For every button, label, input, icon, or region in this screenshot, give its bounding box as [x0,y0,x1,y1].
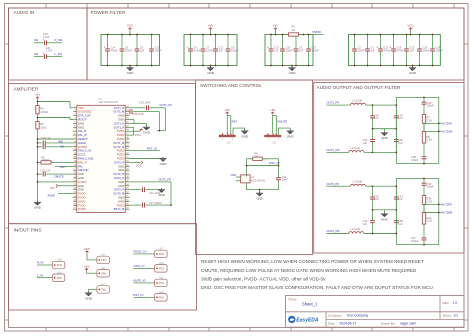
svg-text:PAD_P: PAD_P [78,160,87,164]
section box AMPLIFIER [9,84,196,224]
capacitor C24 10uF (bootstrap 3) [130,187,161,195]
node INL [60,145,65,149]
capacitor C17 100nF [306,34,319,67]
wire OUT1_P net drop [150,108,166,131]
ground (U4) [241,129,249,138]
note text line 1 [201,259,424,264]
svg-text:PVDD: PVDD [78,203,86,207]
capacitor C37 100pF (snubber bottom) [411,224,426,245]
svg-text:R_IN1: R_IN1 [55,38,63,42]
ground (output filter ch1) [381,131,389,140]
section box AUDIO OUTPUT AND OUTPUT FILTER [314,83,464,254]
svg-text:OTW_IO: OTW_IO [133,264,145,268]
capacitor C34 1uF (P col2) [394,105,403,129]
capacitor C0P 100pF (snubber bottom) [411,143,426,164]
svg-text:INL: INL [60,145,65,149]
svg-text:1uF: 1uF [299,48,304,52]
svg-text:VDD: VDD [78,106,84,110]
svg-text:ECS-120-AL: ECS-120-AL [251,178,266,182]
node RST [227,116,237,134]
svg-text:EasyEDA: EasyEDA [296,318,319,324]
svg-text:OUT1_P0: OUT1_P0 [159,103,172,107]
svg-text:VCC: VCC [136,164,142,168]
node R_IN1 [55,38,63,42]
svg-text:+: + [103,45,105,49]
svg-text:+5V: +5V [224,108,229,112]
svg-text:+5V: +5V [270,108,275,112]
svg-text:GND: GND [287,134,295,138]
svg-text:2024-06-17: 2024-06-17 [340,321,357,325]
svg-text:C27 100nF: C27 100nF [149,201,162,205]
svg-text:U4: U4 [227,140,231,144]
svg-text:7kΩ: 7kΩ [255,154,260,158]
svg-text:L_IN1: L_IN1 [55,52,63,56]
svg-text:OUT2_P: OUT2_P [114,188,125,192]
svg-text:1uF: 1uF [218,48,223,52]
power symbol +5V (pin feed) [84,264,97,273]
ground (amplifier left rail) [34,201,42,210]
svg-text:GND: GND [118,118,124,122]
note text line 4 [201,285,433,290]
svg-text:OUT2_P0: OUT2_P0 [327,182,340,186]
svg-text:1uF: 1uF [409,48,414,52]
capacitor C30 100pF (snubber top) [422,96,435,114]
svg-text:100pF: 100pF [427,104,435,108]
ground (oscillator) [256,192,264,201]
svg-text:FAULT_IO: FAULT_IO [133,250,147,254]
node PVDD [313,30,324,35]
svg-text:RST_IO: RST_IO [133,293,144,297]
svg-text:REV:: REV: [443,301,450,305]
svg-text:1.0: 1.0 [453,301,458,305]
wire filter gnd tie ch2 [372,209,398,212]
svg-text:1uF: 1uF [398,116,403,120]
wire GND bus rows 4-5 [130,120,147,126]
svg-text:OUT2_M0: OUT2_M0 [327,229,340,233]
capacitor C25 10uF (bootstrap 2) [130,109,161,131]
power symbol +5V (amplifier rail) [35,93,40,100]
capacitor C41 1uF (P col2) [394,186,403,210]
svg-text:GND: GND [409,71,417,75]
svg-text:100nF: 100nF [422,48,430,52]
svg-text:OUT2_P: OUT2_P [114,176,125,180]
capacitor C18 470uF [389,34,404,67]
wire power-filter rail (VCC) [349,35,441,66]
svg-text:1uF: 1uF [363,222,368,226]
svg-text:GVDD/SD2: GVDD/SD2 [78,110,92,114]
ground (below +5V group) [288,65,296,75]
svg-text:1uF: 1uF [374,116,379,120]
svg-text:MOUT*: MOUT* [78,118,87,122]
connector U9 (FAULT_IO pin) [155,247,168,258]
svg-text:OUT1_P: OUT1_P [114,125,125,129]
capacitor C26 100nF [417,34,430,67]
node OUT2_P0 [159,177,172,181]
ground (U2) [287,129,295,138]
svg-text:GND: GND [78,125,84,129]
wire power-filter rail (VCC) [101,35,160,66]
capacitor C5 100uF [120,34,133,67]
svg-text:L2 10uH: L2 10uH [351,146,361,150]
svg-text:CMUTE: CMUTE [54,174,64,178]
capacitor C28 100nF [430,34,443,67]
svg-text:100uF: 100uF [285,48,293,52]
svg-text:GND: GND [78,121,84,125]
svg-text:PIN1: PIN1 [159,268,165,271]
svg-text:2.2uF: 2.2uF [46,49,53,53]
svg-text:OUT1_M: OUT1_M [113,141,125,145]
wire RST to reset pin [55,165,73,167]
section box POWER FILTER [87,8,464,80]
svg-text:C31 1uF: C31 1uF [41,168,51,172]
svg-text:GND: GND [78,172,84,176]
svg-text:AUDIO IN: AUDIO IN [14,10,35,15]
svg-text:+: + [389,45,391,49]
resistor R7 2.2Ω [422,115,432,124]
wire snubber frame ch2 [395,178,438,244]
inductor L1 10uH [350,99,396,106]
svg-text:Sheet:: Sheet: [443,313,452,317]
ground (pin U7) [85,289,97,300]
svg-text:OUT1_M: OUT1_M [113,110,125,114]
svg-text:100uF: 100uF [125,48,133,52]
svg-text:Date:: Date: [328,321,336,325]
section box IN/OUT PINS [9,224,197,310]
svg-text:PAL: PAL [78,164,83,168]
capacitor C16 100uF [280,34,293,67]
svg-text:Sheet_1: Sheet_1 [302,302,318,307]
svg-text:1/1: 1/1 [454,313,459,317]
power symbol +5V (U2 circuit) [270,108,275,115]
svg-text:100nF: 100nF [311,48,319,52]
capacitor C1 1uF [365,34,375,67]
svg-text:10pF: 10pF [282,178,288,182]
svg-text:100nF: 100nF [357,48,365,52]
U1 right pins (names, numbers, stubs) [113,106,129,211]
node OUT1P0 (snubber tap P) [424,121,452,125]
capacitor C21 2.2uF (series, left channel) [42,46,53,59]
capacitor C27 100nF (bootstrap 4) [130,201,172,207]
wire +5V drop (U4) [226,115,228,134]
resistor R6 7k (oscillator feedback) [249,151,269,160]
svg-text:L1 10uH: L1 10uH [353,99,363,103]
svg-text:GND: GND [78,184,84,188]
ground (below VCC group) [126,65,134,75]
U1 left pins (names, numbers, stubs) [73,106,94,211]
svg-text:GND: GND [127,71,135,75]
node L_IN1 [55,52,63,56]
wire oscillator loop [246,159,280,177]
capacitor C19 2.2uF (series, right channel) [42,32,50,45]
svg-text:AUDIO OUTPUT AND OUTPUT FILTER: AUDIO OUTPUT AND OUTPUT FILTER [317,85,401,90]
transistor U4 (jumper/switch element) [219,133,235,144]
wire to node RST_IO [130,150,161,152]
svg-text:PANLG_N02: PANLG_N02 [78,157,94,161]
svg-text:+: + [376,45,378,49]
node OTW_IO [133,264,154,268]
svg-text:1uF: 1uF [370,48,375,52]
svg-text:+: + [186,45,188,49]
svg-text:CMUTE*: CMUTE* [78,168,89,172]
svg-text:+: + [267,45,269,49]
svg-text:RST: RST [232,119,238,123]
svg-text:+5V: +5V [208,24,213,28]
node RST [60,165,66,169]
capacitor C11 10pF [276,173,288,186]
svg-text:DVDD2: DVDD2 [78,145,88,149]
power symbol +5V (gain pin flag) [49,184,73,190]
transistor U2 (jumper/switch element) [265,133,281,144]
svg-text:PVDD: PVDD [78,196,86,200]
wire audio-in row2 left [34,56,44,58]
node RST_IO [147,146,158,150]
connector U8 (+5V pin) [97,266,110,277]
capacitor C31 1uF (mute filter) [37,168,73,176]
node OSC_IO (right of R6) [269,161,280,165]
svg-text:100kΩ: 100kΩ [40,110,48,114]
node OUT1M0 (snubber tap M) [424,130,453,134]
title block TITLE cell [288,297,318,306]
ground (U1 right middle) [159,157,167,166]
capacitor C23 100nF (bootstrap 1) [139,100,151,110]
svg-text:OUT1M0: OUT1M0 [441,130,453,134]
wire branch to pin 1 [37,101,73,108]
svg-text:GND: GND [381,217,389,221]
svg-text:1uF: 1uF [398,222,403,226]
svg-text:GND: GND [118,168,124,172]
svg-text:GND: GND [289,71,297,75]
capacitor C8 100nF [226,34,239,67]
svg-text:PAL_R*: PAL_R* [78,133,87,137]
note text line 3 [201,276,326,281]
svg-text:GND: GND [207,71,215,75]
inductor L2 10uH [349,146,397,153]
svg-text:1uF: 1uF [274,48,279,52]
op-amp U1 TPA3116D2DAD (class-D amplifier IC) [77,97,125,212]
svg-text:2.4Ω: 2.4Ω [427,138,433,142]
capacitor C32 1uF (P to gnd) [370,105,379,129]
svg-text:GND: GND [118,180,124,184]
svg-text:SWITCHING AND CONTROL: SWITCHING AND CONTROL [200,83,262,88]
svg-text:GND: GND [78,188,84,192]
wire OUT2 net [130,182,172,205]
connector U11 (MUTE_IO pin) [155,276,168,287]
svg-text:L_IN: L_IN [37,273,43,277]
svg-text:TITLE:: TITLE: [288,297,297,301]
capacitor C3 1uF [294,34,304,67]
svg-text:PIN1: PIN1 [159,253,165,256]
capacitor C15 1uF [267,34,279,67]
svg-text:PVDD: PVDD [117,129,125,133]
node OUT2P0 (snubber tap P) [424,202,452,206]
svg-text:PVDD: PVDD [117,203,125,207]
svg-text:470uF: 470uF [193,48,201,52]
svg-text:10kΩ: 10kΩ [40,126,46,130]
capacitor C7 100uF [201,34,214,67]
svg-text:GND: GND [158,193,166,197]
svg-text:PIN1: PIN1 [57,264,63,267]
svg-text:100nF: 100nF [154,48,162,52]
svg-text:L3 10uH: L3 10uH [353,180,363,184]
capacitor C40 1uF (M to gnd) [363,210,375,234]
svg-text:IN/OUT PINS: IN/OUT PINS [14,228,42,233]
svg-text:RESET HIGH WHEN WORKING, LOW W: RESET HIGH WHEN WORKING, LOW WHEN CONNEC… [201,259,424,264]
wire U4 to ground [233,128,245,135]
svg-text:PVDD: PVDD [117,133,125,137]
power symbol +5V (U4 circuit) [224,108,229,115]
node L_IN (input pin) [37,273,52,277]
node RST_IO [133,293,154,297]
wire to ground row 158.5 [130,158,164,160]
wire audio-in row1 left [34,42,44,44]
capacitor C38 1uF (M col2) [394,210,403,234]
svg-text:MUTE_IO: MUTE_IO [133,279,146,283]
connector U7 (GND pin) [97,282,110,293]
wire audio-in row1 right [46,42,62,44]
svg-text:GND: GND [160,162,168,166]
resistor R1 (series on PVDD rail) [289,25,305,37]
wire power-filter rail (+5V) [265,35,313,66]
svg-text:AVDD: AVDD [78,199,85,203]
ground (below +5V group) [207,65,215,75]
capacitor C22 1uF [404,34,415,67]
svg-text:AVDD: AVDD [48,194,56,198]
svg-text:BST2_M: BST2_M [114,207,125,211]
svg-text:Company:: Company: [328,313,342,317]
svg-text:Drawn By:: Drawn By: [381,321,395,325]
node OUT2M0 (snubber tap M) [424,211,453,215]
connector U14 (L_IN pin) [52,270,65,281]
section box SWITCHING AND CONTROL [196,80,313,255]
section box AUDIO IN [9,8,88,80]
node OUT2_P0 (filter input P) [327,182,351,186]
svg-text:1uF: 1uF [374,197,379,201]
svg-text:OUT2P0: OUT2P0 [441,202,452,206]
connector U16 (R_IN pin) [52,258,65,269]
node OUT1_M0 (filter input M) [327,148,349,152]
svg-text:HLIM2: HLIM2 [78,141,86,145]
power symbol VCC [407,24,414,36]
node OUT1_P0 [159,103,172,107]
svg-text:TPA3116D2DAD: TPA3116D2DAD [98,100,118,104]
wire branch row 117.5 [37,117,73,120]
svg-text:C30 1uF: C30 1uF [41,136,51,140]
ground (near U1 outputs top) [143,126,151,135]
svg-text:100uF: 100uF [206,48,214,52]
svg-text:100pF: 100pF [411,239,419,243]
node FAULT_IO [133,250,154,254]
capacitor C29 1uF (input coupling R) [37,141,73,146]
svg-text:IN1: IN1 [34,38,39,42]
svg-text:VCC: VCC [135,133,141,137]
svg-text:100nF: 100nF [231,48,239,52]
svg-text:1uF: 1uF [363,141,368,145]
node AVDD wire [48,194,74,198]
title block frame [286,296,465,328]
svg-text:Your Company: Your Company [347,313,369,317]
power symbol VCC (row 162.4) [130,161,143,168]
svg-text:1uF: 1uF [140,48,145,52]
svg-text:+: + [42,51,44,55]
svg-text:GND: GND [381,136,389,140]
node R_IN (input pin) [37,261,52,265]
svg-text:PVDD: PVDD [78,192,86,196]
power symbol VCC [127,24,134,36]
svg-text:VCC: VCC [84,247,91,251]
node OUT1_P0 (filter input P) [327,101,351,105]
svg-text:CMUTE, REQUIRED LOW PULSE AT N: CMUTE, REQUIRED LOW PULSE AT NMOS GATE W… [201,268,417,273]
node CMUTE [273,116,287,134]
svg-text:GTA_CLR*: GTA_CLR* [78,114,91,118]
wire bootstrap net OUT1 top [130,107,146,109]
svg-text:GND: GND [118,114,124,118]
svg-text:470uF: 470uF [396,48,404,52]
svg-text:VCC: VCC [127,24,134,28]
svg-text:sagar saini: sagar saini [400,321,416,325]
note text line 2 [201,268,417,273]
wire branch row 139 [37,138,73,140]
svg-text:RESET*: RESET* [78,137,88,141]
svg-text:INR: INR [58,140,63,144]
svg-text:PIN1: PIN1 [101,289,107,292]
title block Date cell [328,321,416,325]
svg-text:GND: GND [34,206,42,210]
svg-text:RST_IO: RST_IO [147,146,158,150]
capacitor C33 1uF (M to gnd) [363,129,375,153]
capacitor C13 100nF [149,34,162,67]
connector U6 (VCC pin) [97,253,110,264]
wire audio-in row2 right [46,56,62,58]
resistor R8 2.4Ω [422,123,432,143]
svg-text:CMUTE: CMUTE [277,119,287,123]
svg-text:OUT2M0: OUT2M0 [441,211,453,215]
svg-text:OUT1P0: OUT1P0 [441,121,452,125]
svg-text:+5V: +5V [273,24,278,28]
capacitor C4 470uF [186,34,201,67]
wire U2 to ground [279,128,291,135]
svg-text:PVDD: PVDD [117,149,125,153]
connector U10 (OTW_IO pin) [155,261,168,272]
node IN2 (audio input left) [34,52,39,56]
svg-text:1Ω: 1Ω [292,28,295,32]
svg-text:PVDD: PVDD [117,157,125,161]
svg-text:2.2Ω: 2.2Ω [427,219,433,223]
power symbol +5V [273,24,278,36]
svg-text:GND: GND [118,184,124,188]
svg-text:PIN1: PIN1 [101,259,107,262]
resistor R5 10k [36,122,47,130]
resistor R4 100k [36,106,48,114]
svg-text:AMPLIFIER: AMPLIFIER [14,87,39,92]
capacitor C10 470uF [376,34,391,67]
capacitor C6 1uF [135,34,145,67]
svg-text:OUT2_M: OUT2_M [113,192,125,196]
svg-text:R5: R5 [40,122,44,126]
svg-text:+5V: +5V [84,264,89,268]
power symbol +5V [208,24,213,36]
svg-text:OUT2_P: OUT2_P [114,160,125,164]
svg-text:1uF: 1uF [398,141,403,145]
svg-text:2.2Ω: 2.2Ω [427,118,433,122]
svg-text:R_IN: R_IN [37,261,43,265]
svg-text:OUT2_M: OUT2_M [113,172,125,176]
svg-text:OUT2_M: OUT2_M [113,145,125,149]
svg-text:GND: GND [256,197,264,201]
svg-text:PIN1: PIN1 [57,277,63,280]
svg-text:OSC: OSC [231,173,237,177]
ground (output filter ch2) [381,212,389,221]
svg-text:470uF: 470uF [110,48,118,52]
